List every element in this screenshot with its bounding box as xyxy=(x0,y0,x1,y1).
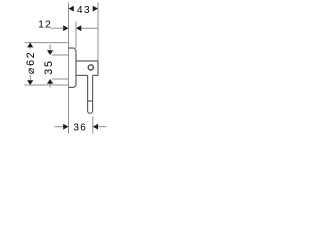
svg-text:43: 43 xyxy=(77,5,91,16)
svg-text:35: 35 xyxy=(43,59,55,74)
svg-text:⌀62: ⌀62 xyxy=(25,51,37,75)
svg-text:12: 12 xyxy=(38,19,52,30)
svg-text:36: 36 xyxy=(73,122,87,133)
